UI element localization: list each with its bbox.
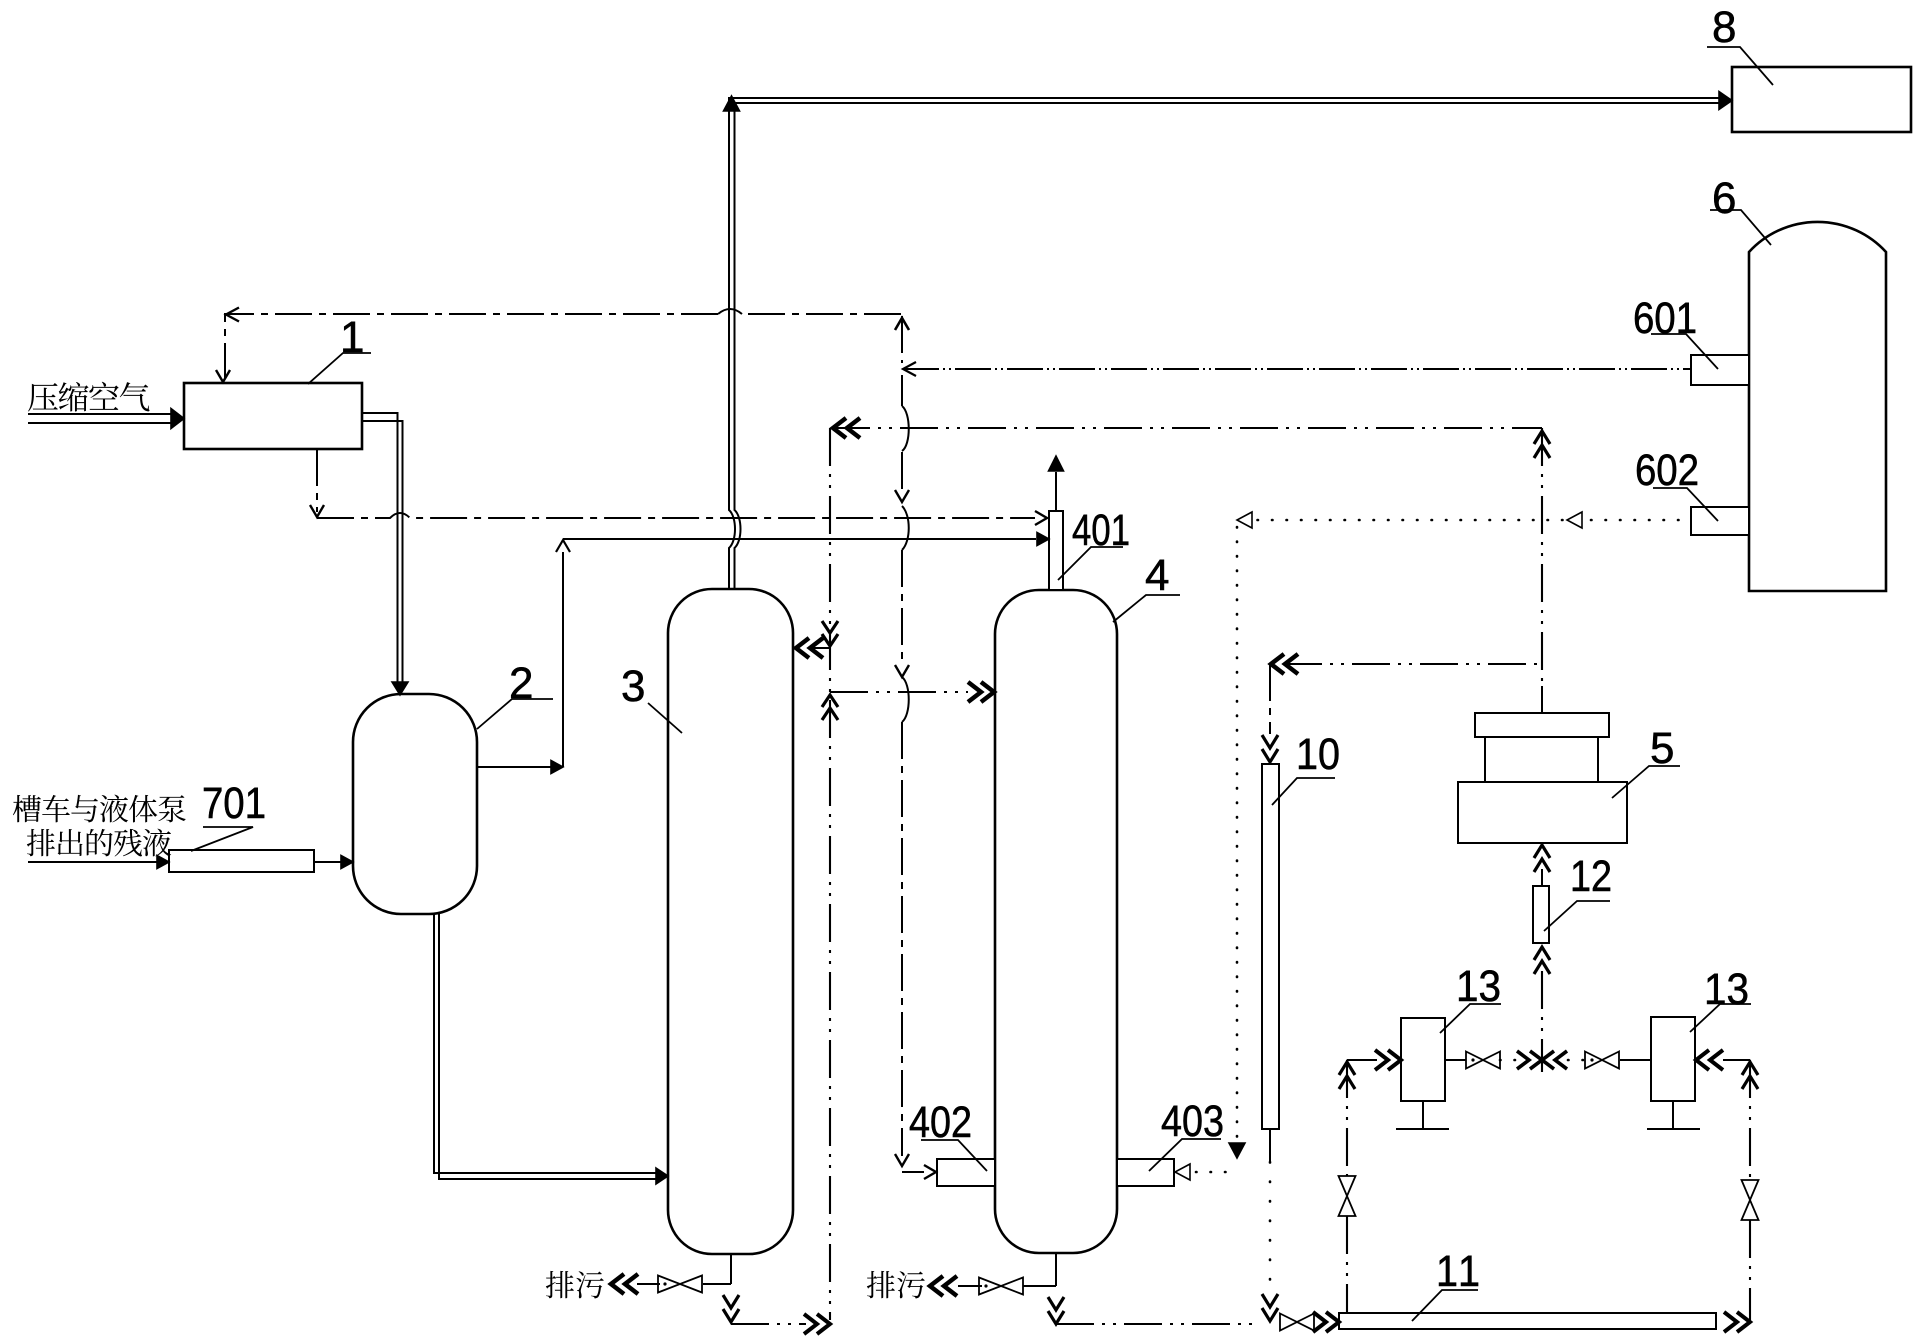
label 12 leader — [1544, 901, 1610, 931]
line: riser x=901 (dash-dot with jumps) — [895, 316, 936, 1179]
label 5 — [1652, 733, 1673, 764]
arrow from silencer 11 to x=1750 — [1724, 1312, 1750, 1332]
regen branch y=664 to dryer 10 (phantom) — [1262, 654, 1542, 762]
filter 12 — [1533, 886, 1549, 943]
vent from nozzle 401 — [1049, 456, 1064, 511]
text compressed air — [28, 382, 149, 412]
vessel 4 drain — [1023, 1253, 1056, 1286]
valve on x=1750 — [1742, 1180, 1759, 1220]
pipe: compressed air inlet (double line) — [28, 409, 184, 429]
pipe into 13L left — [1347, 1050, 1401, 1070]
valve on x=1347 — [1339, 1176, 1356, 1216]
arrow down into exchanger 1 — [216, 370, 230, 382]
pipe: tank 6 line 601 (phantom) — [903, 362, 1691, 376]
branch into vessel 3 at y=648 — [796, 638, 830, 658]
solid arrow down 1237,1158 — [1229, 1143, 1245, 1158]
label 602 leader — [1653, 488, 1718, 521]
dryer column 10 — [1262, 764, 1279, 1129]
nozzle 403 — [1117, 1159, 1174, 1186]
silencer 11 — [1339, 1313, 1716, 1329]
buffer tank 6 — [1749, 222, 1886, 591]
regen line x=1347 (phantom) — [1346, 1060, 1348, 1313]
label 13 left leader — [1440, 1004, 1501, 1033]
label 10 — [1299, 738, 1338, 769]
corner arrows 1750,1060 — [1742, 1062, 1758, 1089]
label 11 leader — [1412, 1290, 1478, 1321]
vessel 4 blowdown arrow — [930, 1276, 982, 1296]
nozzle 402 — [937, 1159, 995, 1186]
arrow double-left at 832,428 — [833, 418, 860, 438]
arrow double-up at 830,695 — [822, 695, 838, 720]
open arrow at 1567,520 — [1567, 512, 1582, 528]
vessel 3 drain down arrows — [723, 1295, 739, 1322]
vessel 3 blowdown arrow — [611, 1274, 660, 1294]
text tanker residual line1 — [13, 795, 186, 823]
label 13 right leader — [1690, 1004, 1751, 1032]
label 602 — [1637, 454, 1697, 485]
adsorber vessel 3 — [668, 589, 793, 1254]
branch into vessel 4 at y=692 (phantom) — [830, 682, 994, 702]
arrow double-down at 830,646 — [822, 621, 838, 646]
pipe: feed line to nozzle 401 (solid) — [563, 533, 1049, 546]
label 6 — [1714, 182, 1734, 213]
label 401 — [1073, 514, 1129, 545]
junction arrows at 1542,1060 — [1517, 1051, 1567, 1069]
product tank 8 — [1732, 67, 1911, 132]
label 601 leader — [1651, 334, 1718, 369]
label 13 left — [1459, 970, 1499, 1001]
adsorber vessel 4 — [995, 590, 1117, 1253]
label 403 leader — [1149, 1139, 1221, 1171]
blower 5 suction from 12 — [1534, 845, 1550, 886]
label 701 — [204, 787, 264, 818]
heater 13 left — [1396, 1018, 1449, 1129]
valve between 13L and junction — [1466, 1052, 1516, 1069]
label 4 — [1146, 560, 1168, 590]
label 4 leader — [1113, 595, 1180, 622]
vessel 3 drain valve — [658, 1276, 702, 1293]
bottom phantom vessel4 to dryer line — [1056, 1323, 1258, 1325]
heater 13 right — [1647, 1017, 1700, 1129]
blower 5 — [1458, 713, 1627, 843]
heat exchanger 1 — [184, 383, 362, 449]
regen line y=428 (phantom) — [832, 427, 1542, 429]
label 8 — [1714, 11, 1735, 42]
bottom phantom vessel3 to x=830 — [731, 1314, 830, 1334]
label 13 right — [1707, 973, 1747, 1004]
label 8 leader — [1707, 47, 1773, 85]
label 403 — [1162, 1105, 1222, 1136]
label 2 leader — [477, 699, 553, 729]
label 601 — [1635, 302, 1695, 333]
label 402 — [910, 1106, 970, 1137]
text blowdown left — [546, 1271, 604, 1299]
pipe: 701 to vessel 2 — [314, 856, 353, 869]
nozzle 401 — [1049, 511, 1063, 590]
pipe valve to 13R — [1620, 1059, 1651, 1061]
pipe: vessel 2 bottom to vessel 3 (double line) — [434, 914, 668, 1184]
regen line x=830 (phantom) — [829, 428, 831, 1320]
valve before silencer 11 — [1280, 1312, 1339, 1332]
label 401 leader — [1058, 547, 1123, 580]
label 701 leader — [191, 827, 253, 851]
vessel 3 drain — [703, 1254, 731, 1284]
label 1 — [343, 322, 362, 352]
dotted line x=1237 vertical — [1236, 527, 1239, 1138]
open arrow at 1237,520 — [1237, 512, 1252, 528]
label 11 — [1439, 1256, 1478, 1286]
pipe: residual inlet to 701 — [28, 856, 169, 869]
vessel 4 drain valve — [979, 1278, 1023, 1295]
arrow double-up at 1542,428 — [1534, 431, 1550, 458]
pipe: exchanger 1 to vessel 2 (double line) — [362, 413, 408, 695]
label 3 leader — [648, 703, 682, 733]
vessel 4 drain down arrows — [1048, 1297, 1064, 1324]
text tanker residual line2 — [27, 829, 171, 857]
label 10 leader — [1272, 778, 1335, 805]
pipe into 13R right — [1696, 1050, 1750, 1070]
label 3 — [623, 670, 644, 701]
text blowdown right — [867, 1271, 925, 1299]
pipe 13L to valve — [1445, 1059, 1466, 1061]
regen line x=1542 down to blower 5 (phantom) — [1541, 428, 1543, 713]
pipe: vessel 2 gas out to riser — [477, 540, 570, 774]
label 6 leader — [1710, 210, 1771, 245]
valve between junction and 13R — [1568, 1052, 1619, 1069]
pipe: vessel 3 top riser to tank 8 (double line with jump) — [724, 92, 1733, 590]
label 1 leader — [308, 353, 371, 384]
arrow left at corner 223,314 — [226, 308, 239, 322]
label 5 leader — [1612, 766, 1680, 798]
separator vessel 2 — [353, 694, 477, 914]
label 2 — [511, 667, 531, 698]
dotted into nozzle 403 — [1175, 1164, 1228, 1180]
dotted line 602 horizontal — [1243, 519, 1691, 522]
corner arrows 1347,1060 — [1339, 1062, 1355, 1089]
flame arrestor 701 — [169, 850, 314, 872]
line: purge header y=518 (dash-dot with humps) — [317, 511, 1047, 525]
line 12 inlet — [1534, 947, 1550, 1072]
label 12 — [1573, 860, 1610, 891]
regen line x=1750 (phantom) — [1749, 1060, 1751, 1322]
line: exchanger 1 bottom out (dash-dot) — [310, 449, 324, 517]
label 402 leader — [921, 1140, 987, 1171]
line: recycle to exchanger 1 top (dash-dot) — [225, 309, 901, 378]
nozzle 601 — [1691, 355, 1749, 385]
line: dryer 10 bottom (dash-dot) — [1262, 1129, 1278, 1321]
nozzle 602 — [1691, 507, 1749, 535]
